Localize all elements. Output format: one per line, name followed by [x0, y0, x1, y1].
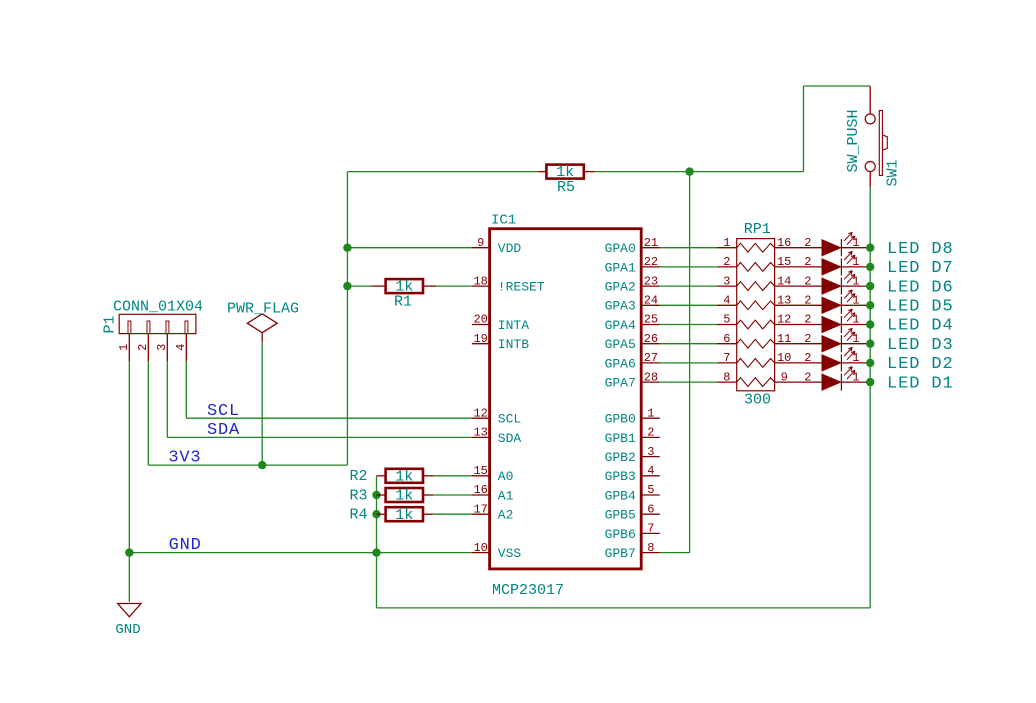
node junction GND/resistor rail — [372, 548, 380, 556]
resistor R3 1k — [377, 494, 386, 496]
wire left rail vertical — [346, 172, 348, 466]
svg-text:1: 1 — [117, 344, 131, 351]
svg-text:VSS: VSS — [498, 546, 522, 561]
svg-text:RP1: RP1 — [744, 221, 771, 238]
svg-text:PWR_FLAG: PWR_FLAG — [227, 300, 299, 317]
wire P1 pin3 down to SDA — [166, 361, 168, 437]
pin 9 VDD — [472, 247, 490, 249]
pin 17 A2 — [472, 513, 490, 515]
svg-text:R1: R1 — [394, 294, 412, 311]
svg-text:25: 25 — [644, 313, 658, 327]
svg-text:LED D1: LED D1 — [887, 374, 954, 393]
ground symbol — [118, 604, 141, 617]
svg-text:15: 15 — [473, 464, 487, 478]
svg-text:7: 7 — [723, 351, 730, 365]
wire VDD row — [347, 247, 472, 249]
svg-text:CONN_01X04: CONN_01X04 — [113, 298, 203, 315]
node junction LED D2 / cathode column — [866, 359, 874, 367]
svg-text:LED D7: LED D7 — [887, 259, 954, 278]
svg-text:2: 2 — [804, 313, 811, 327]
svg-text:5: 5 — [723, 313, 730, 327]
pin 23 GPA2 — [641, 285, 660, 287]
svg-text:3: 3 — [155, 344, 169, 351]
svg-text:21: 21 — [644, 236, 658, 250]
svg-text:22: 22 — [644, 255, 658, 269]
resistor element 5 of RP1 — [717, 324, 737, 326]
svg-text:GPB1: GPB1 — [605, 431, 636, 446]
wire top net from left rail to R5 — [347, 171, 538, 173]
wire GPA4 to RP1 — [660, 324, 717, 326]
svg-text:GPB2: GPB2 — [605, 450, 636, 465]
svg-text:LED D3: LED D3 — [887, 336, 954, 355]
pin 27 GPA6 — [641, 362, 660, 364]
svg-text:6: 6 — [723, 332, 730, 346]
pin 1 of P1 — [128, 321, 131, 334]
node junction GND/pin1 — [125, 548, 133, 556]
pin 12 of RP1 — [775, 324, 794, 326]
wire R2 right to A0 — [433, 475, 472, 477]
wire resistor rail vertical — [376, 476, 378, 608]
svg-text:R4: R4 — [350, 507, 368, 524]
node junction LED D7 / cathode column — [866, 263, 874, 271]
svg-text:A1: A1 — [498, 488, 514, 503]
svg-text:GPB0: GPB0 — [605, 412, 636, 427]
svg-text:GPA4: GPA4 — [605, 318, 636, 333]
resistor element 8 of RP1 — [717, 381, 737, 383]
svg-text:2: 2 — [804, 236, 811, 250]
svg-text:4: 4 — [647, 464, 654, 478]
LED D2 — [794, 362, 822, 364]
pin 14 of RP1 — [775, 285, 794, 287]
svg-text:16: 16 — [473, 483, 487, 497]
wire SDA — [167, 436, 472, 438]
svg-text:SDA: SDA — [207, 421, 240, 440]
svg-text:GPB4: GPB4 — [605, 488, 636, 503]
resistor element 3 of RP1 — [717, 285, 737, 287]
wire P1 pin4 down to SCL — [185, 361, 187, 418]
wire GND symbol stem — [128, 553, 130, 602]
svg-text:GPA1: GPA1 — [605, 260, 636, 275]
svg-text:2: 2 — [723, 255, 730, 269]
svg-text:2: 2 — [647, 426, 654, 440]
svg-text:SW_PUSH: SW_PUSH — [845, 109, 862, 172]
node junction LED D6 / cathode column — [866, 282, 874, 290]
wire R4 right to A2 — [433, 513, 472, 515]
node junction LED D1 / cathode column — [866, 378, 874, 386]
wire corner up to switch level — [803, 86, 805, 172]
node junction rail/R3 — [372, 491, 380, 499]
wire GPB7 to riser — [660, 552, 690, 554]
svg-text:11: 11 — [777, 332, 791, 346]
svg-text:GPA7: GPA7 — [605, 376, 636, 391]
svg-text:R3: R3 — [350, 487, 368, 504]
resistor R5 1k — [538, 171, 546, 173]
svg-text:SCL: SCL — [207, 402, 240, 421]
LED D1 — [794, 381, 822, 383]
svg-text:20: 20 — [473, 313, 487, 327]
wire bottom net — [377, 607, 871, 609]
svg-text:GPB5: GPB5 — [605, 508, 636, 523]
pin 21 GPA0 — [641, 247, 660, 249]
svg-text:!RESET: !RESET — [498, 280, 545, 295]
svg-text:4: 4 — [174, 344, 188, 351]
svg-text:2: 2 — [804, 370, 811, 384]
svg-text:SDA: SDA — [498, 431, 522, 446]
resistor R2 1k — [377, 475, 386, 477]
svg-text:24: 24 — [644, 294, 658, 308]
svg-text:1: 1 — [852, 313, 859, 327]
wire R3 right to A1 — [433, 494, 472, 496]
svg-text:2: 2 — [804, 332, 811, 346]
node junction rail/R4 — [372, 510, 380, 518]
svg-text:1: 1 — [723, 236, 730, 250]
svg-text:LED D4: LED D4 — [887, 317, 954, 336]
svg-text:15: 15 — [777, 255, 791, 269]
switch SW1 bottom contact — [865, 162, 875, 172]
svg-text:1: 1 — [852, 294, 859, 308]
pin 4 of P1 — [185, 321, 188, 334]
pin 2 GPB1 — [641, 436, 660, 438]
wire P1 pin1 down — [128, 361, 130, 553]
wire to switch top — [804, 85, 871, 87]
pin 22 GPA1 — [641, 266, 660, 268]
switch SW1 bottom pin — [869, 172, 871, 187]
pin 7 GPB6 — [641, 532, 660, 534]
pin 3 of P1 — [166, 321, 169, 334]
pin 4 GPB3 — [641, 475, 660, 477]
svg-text:2: 2 — [804, 294, 811, 308]
pin 18 !RESET — [472, 285, 490, 287]
svg-text:SW1: SW1 — [885, 159, 902, 186]
svg-text:19: 19 — [473, 332, 487, 346]
pin 8 GPB7 — [641, 552, 660, 554]
svg-text:23: 23 — [644, 274, 658, 288]
svg-text:P1: P1 — [102, 315, 119, 333]
svg-text:7: 7 — [647, 522, 654, 536]
resistor element 6 of RP1 — [717, 343, 737, 345]
pin 3 GPB2 — [641, 456, 660, 458]
svg-text:GPB7: GPB7 — [605, 546, 636, 561]
svg-text:GND: GND — [115, 622, 140, 638]
wire P1 pin2 down to 3V3 — [147, 361, 149, 465]
svg-text:GND: GND — [169, 536, 202, 555]
resistor network RP1 body — [737, 239, 775, 391]
svg-text:8: 8 — [647, 541, 654, 555]
op-amp U1 : IC1 MCP23017 body — [490, 229, 642, 569]
svg-text:9: 9 — [477, 236, 484, 250]
wire GPB7 riser — [689, 172, 691, 553]
svg-text:R2: R2 — [350, 468, 368, 485]
pin 25 GPA4 — [641, 324, 660, 326]
svg-text:10: 10 — [777, 351, 791, 365]
LED D5 — [794, 304, 822, 306]
node junction LED D4 / cathode column — [866, 320, 874, 328]
svg-text:300: 300 — [744, 391, 771, 408]
node junction LED D5 / cathode column — [866, 301, 874, 309]
pin 15 of RP1 — [775, 266, 794, 268]
svg-text:1: 1 — [852, 236, 859, 250]
switch SW1 top contact — [865, 114, 875, 124]
node junction LED D8 / cathode column — [866, 244, 874, 252]
svg-text:A0: A0 — [498, 469, 514, 484]
svg-text:9: 9 — [781, 370, 788, 384]
svg-text:27: 27 — [644, 351, 658, 365]
svg-text:GPA6: GPA6 — [605, 356, 636, 371]
pin 10 of RP1 — [775, 362, 794, 364]
wire GND row — [129, 552, 472, 554]
pin 12 SCL — [472, 417, 490, 419]
svg-text:GPA3: GPA3 — [605, 299, 636, 314]
pin 11 of RP1 — [775, 343, 794, 345]
pin 9 of RP1 — [775, 381, 794, 383]
wire GPA5 to RP1 — [660, 343, 717, 345]
svg-text:3: 3 — [723, 274, 730, 288]
pin 10 VSS — [472, 552, 490, 554]
resistor R4 1k — [377, 513, 386, 515]
pin 16 of RP1 — [775, 247, 794, 249]
svg-text:LED D2: LED D2 — [887, 355, 954, 374]
svg-text:R5: R5 — [557, 179, 575, 196]
pin 16 A1 — [472, 494, 490, 496]
node junction top wire / GPB7 riser — [685, 167, 693, 175]
svg-text:LED D8: LED D8 — [887, 240, 954, 259]
resistor R1 1k — [372, 285, 386, 287]
pin 24 GPA3 — [641, 304, 660, 306]
svg-text:28: 28 — [644, 370, 658, 384]
svg-text:LED D5: LED D5 — [887, 298, 954, 317]
pin 13 of RP1 — [775, 304, 794, 306]
svg-text:10: 10 — [473, 541, 487, 555]
node junction LED D3 / cathode column — [866, 340, 874, 348]
svg-text:2: 2 — [136, 344, 150, 351]
wire GPA6 to RP1 — [660, 362, 717, 364]
svg-text:3: 3 — [647, 445, 654, 459]
pin 1 GPB0 — [641, 417, 660, 419]
wire 3V3 horizontal — [148, 464, 347, 466]
resistor element 2 of RP1 — [717, 266, 737, 268]
wire GPA0 to RP1 — [660, 247, 717, 249]
connector P1 CONN_01X04 body — [119, 314, 196, 333]
svg-text:SCL: SCL — [498, 412, 521, 427]
svg-text:3V3: 3V3 — [168, 449, 201, 468]
power flag PWR_FLAG — [247, 314, 277, 333]
svg-text:12: 12 — [473, 406, 487, 420]
pin 15 A0 — [472, 475, 490, 477]
wire R1 to pin18 — [436, 285, 472, 287]
svg-text:1k: 1k — [395, 488, 413, 505]
pin 2 of P1 — [147, 321, 150, 334]
LED D6 — [794, 285, 822, 287]
svg-text:GPB6: GPB6 — [605, 527, 636, 542]
svg-text:1: 1 — [852, 255, 859, 269]
svg-text:1k: 1k — [395, 507, 413, 524]
svg-text:1: 1 — [852, 351, 859, 365]
resistor element 1 of RP1 — [717, 247, 737, 249]
svg-text:8: 8 — [723, 370, 730, 384]
LED D4 — [794, 324, 822, 326]
svg-text:2: 2 — [804, 351, 811, 365]
wire LED cathode column — [869, 187, 871, 608]
resistor element 7 of RP1 — [717, 362, 737, 364]
svg-text:INTA: INTA — [498, 318, 529, 333]
pin 6 GPB5 — [641, 513, 660, 515]
svg-text:1: 1 — [852, 274, 859, 288]
svg-text:A2: A2 — [498, 508, 514, 523]
node junction rail/R1 — [343, 282, 351, 290]
svg-text:VDD: VDD — [498, 241, 522, 256]
svg-text:2: 2 — [804, 274, 811, 288]
svg-text:2: 2 — [804, 255, 811, 269]
LED D3 — [794, 343, 822, 345]
svg-text:MCP23017: MCP23017 — [492, 582, 564, 599]
svg-text:1: 1 — [647, 406, 654, 420]
LED D7 — [794, 266, 822, 268]
switch SW1 actuator bump — [882, 135, 887, 150]
svg-text:26: 26 — [644, 332, 658, 346]
resistor element 4 of RP1 — [717, 304, 737, 306]
svg-text:6: 6 — [647, 502, 654, 516]
LED D8 — [794, 247, 822, 249]
pin 5 GPB4 — [641, 494, 660, 496]
svg-text:13: 13 — [473, 426, 487, 440]
svg-text:GPA2: GPA2 — [605, 280, 636, 295]
wire SCL — [186, 417, 472, 419]
pin 26 GPA5 — [641, 343, 660, 345]
svg-text:GPA5: GPA5 — [605, 337, 636, 352]
node junction rail/VDD — [343, 244, 351, 252]
svg-text:1k: 1k — [395, 468, 413, 485]
pin 13 SDA — [472, 436, 490, 438]
svg-text:GPA0: GPA0 — [605, 241, 636, 256]
svg-text:16: 16 — [777, 236, 791, 250]
svg-text:18: 18 — [473, 274, 487, 288]
svg-text:GPB3: GPB3 — [605, 469, 636, 484]
svg-text:14: 14 — [777, 274, 791, 288]
svg-text:5: 5 — [647, 483, 654, 497]
wire GPA3 to RP1 — [660, 304, 717, 306]
svg-text:1: 1 — [852, 332, 859, 346]
wire GPA1 to RP1 — [660, 266, 717, 268]
wire rail to R1 — [347, 285, 371, 287]
svg-text:13: 13 — [777, 294, 791, 308]
svg-text:12: 12 — [777, 313, 791, 327]
svg-text:IC1: IC1 — [491, 213, 516, 229]
switch SW1 bar — [879, 111, 882, 176]
switch SW1 SW_PUSH top pin — [869, 86, 871, 114]
svg-text:17: 17 — [473, 502, 487, 516]
svg-text:1: 1 — [852, 370, 859, 384]
pin 19 INTB — [472, 343, 490, 345]
wire GPA7 to RP1 — [660, 381, 717, 383]
pin 20 INTA — [472, 324, 490, 326]
wire R5 to top-right corner — [595, 171, 804, 173]
node junction 3V3/PWR_FLAG — [258, 461, 266, 469]
wire GPA2 to RP1 — [660, 285, 717, 287]
pin 28 GPA7 — [641, 381, 660, 383]
svg-text:INTB: INTB — [498, 337, 529, 352]
svg-text:LED D6: LED D6 — [887, 278, 954, 297]
svg-text:4: 4 — [723, 294, 730, 308]
wire PWR_FLAG stem — [261, 342, 263, 465]
